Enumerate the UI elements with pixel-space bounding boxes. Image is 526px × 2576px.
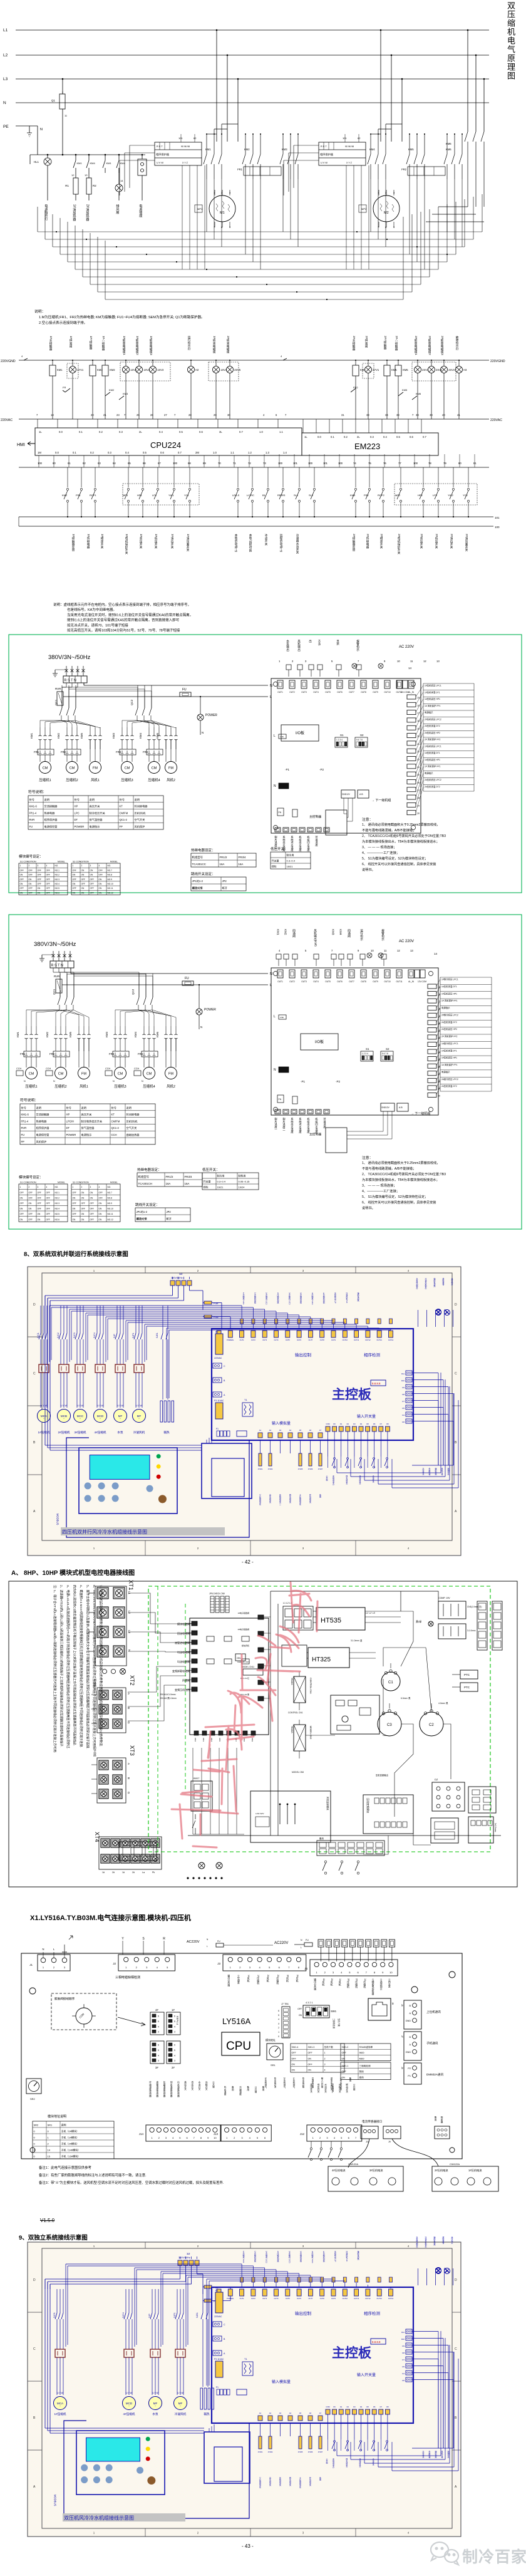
alarm lamps — [352, 663, 357, 668]
svg-text:制冷百家: 制冷百家 — [462, 2548, 526, 2566]
svg-text:2: 2 — [81, 865, 83, 867]
svg-text:4#化霜感温头: 4#化霜感温头 — [299, 1494, 302, 1505]
comm ports — [404, 2000, 421, 2029]
right input connectors — [406, 1371, 412, 1375]
svg-text:水流开关: 水流开关 — [198, 2080, 201, 2090]
svg-text:68: 68 — [188, 462, 191, 465]
svg-text:101: 101 — [293, 462, 298, 465]
output wire OUT1 — [241, 2264, 242, 2287]
remote controller — [326, 1128, 347, 1153]
svg-text:A4: A4 — [289, 1429, 292, 1431]
svg-text:D7: D7 — [380, 1423, 383, 1425]
svg-text:高压开关: 高压开关 — [81, 1113, 92, 1117]
connector J9 — [383, 2126, 401, 2139]
svg-text:1: 1 — [73, 865, 74, 867]
svg-text:2YW1: 2YW1 — [258, 2451, 263, 2453]
svg-text:KM2: KM2 — [62, 494, 68, 497]
contactor for MCB — [59, 1364, 69, 1373]
output wire OUT5 — [287, 1313, 288, 1329]
input contact SL1 — [299, 467, 300, 487]
svg-text:18: 18 — [438, 1008, 440, 1010]
dashed box MP2 group — [394, 484, 477, 505]
phase check lamps — [436, 1309, 441, 1315]
svg-text:KM1: KM1 — [16, 1032, 19, 1037]
svg-text:输出公共端: 输出公共端 — [314, 1978, 317, 1990]
output wire OUT14 — [390, 1329, 391, 1331]
svg-text:6、 线控开关可以外接风查通信控制，具体参见安装: 6、 线控开关可以外接风查通信控制，具体参见安装 — [362, 861, 436, 866]
svg-text:4: 4 — [21, 355, 23, 358]
svg-text:OFF: OFF — [38, 874, 41, 876]
breaker SJF1 — [177, 2289, 178, 2313]
svg-text:NO.12: NO.12 — [108, 1218, 113, 1221]
svg-text:MODEL CN11: MODEL CN11 — [242, 1666, 254, 1668]
svg-text:FR4: FR4 — [143, 750, 148, 754]
svg-text:2#热继电器: 2#热继电器 — [366, 534, 369, 549]
svg-text:5: 5 — [331, 660, 333, 663]
svg-text:KM1-6: KM1-6 — [29, 805, 38, 808]
svg-text:3#压缩机加热: 3#压缩机加热 — [300, 2251, 302, 2262]
svg-text:3: 3 — [146, 1966, 148, 1969]
PCB stub 回油电磁阀 — [192, 1631, 197, 1635]
input contact YW1 — [173, 467, 175, 487]
svg-text:2#相序开关: 2#相序开关 — [379, 534, 383, 549]
svg-text:OFF: OFF — [292, 2057, 297, 2060]
svg-text:FR1: FR1 — [20, 1052, 26, 1056]
svg-text:说明: 说明 — [81, 1106, 86, 1110]
svg-text:CCH: CCH — [46, 1067, 51, 1070]
svg-text:25: 25 — [417, 774, 420, 776]
svg-text:3#压缩机: 3#压缩机 — [75, 1430, 86, 1435]
svg-text:KM5: KM5 — [408, 148, 414, 151]
svg-text:P1: P1 — [408, 2075, 411, 2077]
right input connectors — [406, 2329, 412, 2334]
PCB stub 四通阀 — [192, 1678, 197, 1682]
svg-text:30: 30 — [438, 1094, 440, 1097]
svg-text:OUT10: OUT10 — [343, 2297, 348, 2300]
svg-text:2L: 2L — [139, 430, 142, 434]
svg-text:A6: A6 — [309, 1429, 312, 1431]
svg-text:FR2: FR2 — [364, 494, 369, 497]
connector J4 — [310, 1960, 398, 1976]
svg-text:2#喷液电磁阀: 2#喷液电磁阀 — [226, 336, 230, 355]
svg-text:ON: ON — [99, 883, 102, 885]
svg-text:14: 14 — [408, 667, 412, 670]
relay coil KM3 — [92, 360, 93, 365]
line fuses row — [318, 1940, 324, 1947]
svg-text:EM223: EM223 — [354, 442, 380, 451]
svg-text:CN2: CN2 — [194, 1738, 197, 1742]
svg-text:ON: ON — [38, 1218, 41, 1221]
svg-text:冷凝风机输出: 冷凝风机输出 — [425, 1277, 427, 1290]
svg-text:低压开关: 低压开关 — [191, 2080, 194, 2090]
svg-text:6: 6 — [278, 2010, 279, 2012]
svg-text:不能与强电线路混铺，A/B不能接错；: 不能与强电线路混铺，A/B不能接错； — [362, 1166, 416, 1171]
svg-text:3: 3 — [333, 1971, 334, 1974]
wiring loops right — [440, 1465, 441, 1466]
svg-text:4.0mm² 黑: 4.0mm² 黑 — [438, 1702, 448, 1705]
svg-text:4: 4 — [172, 2136, 174, 2139]
svg-text:系统出水温度: 系统出水温度 — [282, 835, 286, 853]
svg-text:HP1: HP1 — [137, 494, 143, 497]
svg-text:HL1: HL1 — [34, 160, 39, 164]
svg-text:化霜温度传感器: 化霜温度传感器 — [163, 2080, 166, 2097]
svg-text:ON: ON — [99, 1202, 102, 1205]
motor M1 — [209, 195, 235, 222]
output wire OUT6 — [299, 2273, 300, 2287]
svg-text:禁用: 禁用 — [359, 2070, 364, 2073]
svg-text:OFF: OFF — [38, 869, 41, 871]
svg-text:电源保险管: 电源保险管 — [44, 824, 58, 829]
svg-text:公共端: 公共端 — [326, 2458, 328, 2464]
svg-text:NO.2: NO.2 — [55, 874, 60, 876]
svg-text:输出控制: 输出控制 — [295, 1352, 312, 1358]
svg-text:OFF: OFF — [38, 1192, 41, 1194]
svg-text:2# 风机保护 FP2: 2# 风机保护 FP2 — [425, 738, 441, 741]
svg-text:KM3: KM3 — [112, 733, 115, 739]
analog input terminals A1-A7 — [258, 2416, 262, 2421]
fuse FuN — [204, 1315, 212, 1318]
svg-text:4 3 2 1: 4 3 2 1 — [306, 2002, 313, 2004]
svg-text:OUT7: OUT7 — [349, 980, 354, 983]
svg-text:1#压缩机: 1#压缩机 — [54, 2412, 66, 2416]
svg-text:71: 71 — [233, 462, 236, 465]
svg-text:注意：: 注意： — [362, 1155, 373, 1160]
output wire OUT12 — [367, 2285, 368, 2287]
output wire OUT4 — [276, 2270, 277, 2287]
svg-text:3#压机排气: 3#压机排气 — [264, 2077, 267, 2089]
svg-text:14: 14 — [434, 952, 438, 955]
svg-text:机组回水温度: 机组回水温度 — [315, 1117, 319, 1135]
page number 43 — [242, 2543, 254, 2549]
svg-text:11: 11 — [64, 114, 68, 117]
svg-text:29: 29 — [417, 804, 420, 807]
svg-text:HP2: HP2 — [418, 494, 423, 497]
svg-text:7: 7 — [174, 413, 176, 417]
svg-text:激发水温开关: 激发水温开关 — [330, 2077, 333, 2090]
CT box CW122A 3#4# — [328, 2166, 403, 2191]
svg-text:0: 0 — [34, 2142, 36, 2146]
svg-text:64: 64 — [113, 462, 116, 465]
remote controller — [326, 810, 347, 835]
svg-text:9: 9 — [382, 1971, 384, 1974]
svg-text:SR1: SR1 — [271, 2064, 276, 2067]
svg-text:ON: ON — [237, 1656, 240, 1659]
svg-text:OFF: OFF — [29, 874, 33, 876]
svg-text:U V W: U V W — [61, 1405, 66, 1407]
svg-text:ON: ON — [342, 2076, 346, 2079]
svg-text:上位机通讯: 上位机通讯 — [426, 2010, 441, 2014]
terminal FN — [277, 1095, 284, 1103]
svg-text:POWER: POWER — [204, 1008, 216, 1012]
wire stubs plc to row — [38, 455, 39, 467]
svg-text:出水温度传感器: 出水温度传感器 — [177, 2080, 180, 2097]
svg-text:81: 81 — [473, 462, 477, 465]
svg-text:1#化霜感温头: 1#化霜感温头 — [259, 1494, 262, 1505]
svg-text:2: 2 — [53, 1966, 55, 1969]
svg-text:OFF: OFF — [90, 883, 94, 885]
svg-text:FR4: FR4 — [138, 1052, 143, 1056]
svg-text:D8: D8 — [366, 2406, 369, 2408]
svg-text:2L: 2L — [357, 435, 360, 439]
svg-text:D: D — [33, 1303, 36, 1307]
svg-text:注: 1、端子合XT1的L1连接错误器LM的L1端的连接线必: 注: 1、端子合XT1的L1连接错误器LM的L1端的连接线必须穿过互感器方可连接… — [53, 1585, 57, 1753]
svg-text:模块地址: 模块地址 — [266, 2038, 276, 2042]
green border box — [9, 635, 522, 893]
svg-text:EEPV-4: EEPV-4 — [176, 2016, 179, 2025]
svg-text:OFF: OFF — [81, 878, 85, 881]
svg-text:CM: CM — [118, 1072, 123, 1076]
svg-text:3、电源L1/L2/L3先接滤波器再经XT1的端子排连接线必: 3、电源L1/L2/L3先接滤波器再经XT1的端子排连接线必须穿过互感器两匝连接… — [66, 1585, 70, 1749]
svg-text:OFF: OFF — [46, 1208, 50, 1210]
svg-text:2#油位开关: 2#油位开关 — [450, 534, 453, 549]
lamp outputs — [436, 2268, 441, 2274]
svg-text:风机输出: 风机输出 — [297, 640, 301, 652]
svg-text:子机（1#模块）: 子机（1#模块） — [61, 2136, 79, 2139]
PCB stub 均油电磁阀 — [192, 1649, 197, 1654]
svg-text:3: 3 — [90, 1186, 91, 1188]
svg-text:1#油压差开关: 1#油压差开关 — [186, 534, 190, 553]
svg-text:H2: H2 — [195, 368, 199, 371]
svg-text:L: L — [207, 1945, 208, 1948]
svg-text:JP8 CHECK CN9: JP8 CHECK CN9 — [209, 1592, 225, 1595]
svg-text:N: N — [202, 731, 204, 734]
svg-text:GND: GND — [406, 2051, 411, 2054]
board top terminals — [217, 2289, 221, 2296]
svg-text:3: 3 — [174, 2031, 175, 2033]
svg-text:CW122A: CW122A — [348, 2163, 358, 2166]
svg-text:B: B — [127, 1707, 130, 1709]
svg-text:4#压缩机: 4#压缩机 — [123, 2412, 135, 2416]
svg-text:2YW6: 2YW6 — [308, 2451, 313, 2453]
crankcase heater CCH — [16, 1071, 23, 1076]
connector J12 — [307, 2125, 362, 2141]
svg-text:0.5: 0.5 — [396, 435, 400, 439]
svg-text:380V/3N~/50Hz: 380V/3N~/50Hz — [48, 654, 91, 661]
svg-text:SW1.4: SW1.4 — [292, 2046, 299, 2049]
wire XT1 row — [89, 1651, 95, 1652]
svg-text:故障报警: 故障报警 — [442, 2236, 445, 2244]
svg-text:1#制冷低压 LPC1: 1#制冷低压 LPC1 — [441, 1042, 458, 1045]
svg-text:环境感温头: 环境感温头 — [309, 2477, 312, 2487]
svg-text:23: 23 — [438, 1044, 440, 1047]
svg-text:KM1: KM1 — [77, 162, 83, 165]
svg-text:10: 10 — [397, 660, 400, 663]
svg-text:ON: ON — [292, 2069, 296, 2072]
svg-text:3: 3 — [241, 2136, 243, 2139]
svg-text:四通阀: 四通阀 — [292, 929, 296, 938]
svg-text:OFF: OFF — [46, 891, 50, 894]
svg-text:MP1: MP1 — [123, 494, 128, 497]
green dashed inner v — [185, 1604, 186, 1792]
svg-text:1L: 1L — [304, 435, 307, 439]
output wire OUT10 — [344, 2281, 346, 2287]
svg-text:NO.1: NO.1 — [55, 1192, 60, 1194]
svg-text:P1: P1 — [216, 1428, 219, 1430]
svg-text:1#接触器反馈: 1#接触器反馈 — [71, 534, 75, 553]
field switch contact — [360, 1458, 362, 1460]
svg-text:4: 4 — [174, 2054, 175, 2057]
svg-text:2、 TCA301CC/CH机组6号拨码开关必须处于ON位置: 2、 TCA301CC/CH机组6号拨码开关必须处于ON位置;TB3 — [362, 833, 446, 838]
svg-text:1#能量电磁阀3: 1#能量电磁阀3 — [149, 336, 153, 355]
svg-text:辅助电加热: 辅助电加热 — [433, 2236, 436, 2246]
svg-text:D5: D5 — [402, 1407, 405, 1410]
svg-text:YC2: YC2 — [463, 494, 468, 497]
svg-text:NO.6: NO.6 — [55, 891, 60, 894]
ground symbol — [53, 670, 58, 677]
svg-text:RVR: RVR — [29, 818, 35, 821]
board top terminals — [217, 1331, 221, 1337]
svg-text:D: D — [455, 1303, 457, 1307]
svg-text:冰点开关: 冰点开关 — [264, 533, 268, 546]
svg-text:ON: ON — [90, 874, 93, 876]
svg-text:压缩机1: 压缩机1 — [25, 1084, 37, 1089]
svg-text:OUT8: OUT8 — [320, 1339, 324, 1341]
svg-text:ON: ON — [73, 1197, 76, 1199]
svg-text:显示: 显示 — [336, 640, 340, 646]
svg-text:N: N — [207, 1938, 209, 1941]
svg-text:1.0: 1.0 — [259, 430, 263, 434]
svg-text:100: 100 — [278, 462, 283, 465]
heading section 8 — [24, 1249, 128, 1258]
svg-text:电源指示灯: 电源指示灯 — [44, 204, 48, 222]
svg-text:SJC2: SJC2 — [57, 1332, 59, 1338]
svg-text:4: 4 — [99, 865, 100, 867]
svg-text:→ 下一级机组: → 下一级机组 — [411, 1111, 430, 1116]
svg-text:380V/3N~/50Hz: 380V/3N~/50Hz — [34, 941, 76, 948]
svg-text:A: A — [127, 1763, 130, 1765]
svg-text:10: 10 — [389, 1971, 393, 1974]
relay coil KM2 — [105, 360, 106, 365]
svg-text:主控板: 主控板 — [332, 2345, 372, 2360]
svg-text:FR1-4: FR1-4 — [21, 1119, 29, 1123]
svg-text:3: 3 — [64, 1966, 66, 1969]
PCB bottom connector MODEL CN11 — [243, 1669, 263, 1675]
svg-text:28: 28 — [188, 413, 192, 417]
svg-text:I/O板: I/O板 — [296, 730, 304, 735]
svg-text:C1: C1 — [388, 1681, 393, 1685]
svg-text:FR3/4: FR3/4 — [239, 856, 247, 859]
solenoid valve 2YV1 — [368, 360, 369, 366]
svg-text:7: 7 — [288, 1966, 290, 1969]
PLC EM223 — [302, 433, 438, 455]
svg-text:N: N — [42, 1948, 44, 1951]
svg-text:A: A — [127, 1693, 130, 1695]
svg-text:压机变频模块: 压机变频模块 — [366, 1798, 370, 1813]
svg-text:2#压缩机加热: 2#压缩机加热 — [277, 1292, 279, 1304]
svg-text:四通阀: 四通阀 — [182, 1678, 190, 1682]
svg-text:D8: D8 — [386, 1423, 389, 1425]
PCB stub 液管进电磁阀 — [192, 1640, 197, 1644]
svg-text:28: 28 — [438, 1080, 440, 1083]
svg-text:高压开关: 高压开关 — [90, 804, 100, 809]
svg-text:4#: 4# — [155, 2008, 158, 2012]
svg-text:JP1的1-2: JP1的1-2 — [137, 1210, 148, 1214]
relay coil KM5 — [386, 360, 388, 365]
svg-text:8.8.8.8: 8.8.8.8 — [372, 1382, 381, 1385]
svg-text:OFF: OFF — [29, 887, 33, 890]
svg-text:NO.11: NO.11 — [108, 1213, 113, 1215]
svg-text:AL_IN: AL_IN — [408, 980, 415, 983]
svg-text:7: 7 — [193, 2136, 195, 2139]
svg-text:ON: ON — [299, 2014, 302, 2017]
wire N — [83, 683, 85, 685]
svg-text:A2: A2 — [269, 1429, 272, 1431]
svg-text:FM: FM — [81, 1072, 86, 1076]
svg-text:C: C — [224, 1365, 225, 1368]
svg-text:CONTROL CN4: CONTROL CN4 — [309, 1678, 312, 1694]
svg-text:环境温度: 环境温度 — [323, 1118, 327, 1130]
svg-text:备用: 备用 — [319, 1837, 324, 1840]
svg-text:SL1: SL1 — [294, 494, 299, 497]
output wire OUT6 — [299, 1315, 300, 1329]
svg-text:1.2: 1.2 — [248, 451, 252, 454]
svg-text:100: 100 — [413, 462, 418, 465]
svg-text:1.M为压缩机;FR1、FR2为热继电器; KM为接触器;: 1.M为压缩机;FR1、FR2为热继电器; KM为接触器; FU1~FU4为熔断… — [39, 314, 205, 319]
wire XT1 row — [89, 1631, 95, 1633]
svg-text:NO.4: NO.4 — [55, 883, 60, 885]
svg-text:L: L — [274, 1015, 276, 1019]
svg-text:13: 13 — [85, 174, 88, 177]
svg-text:FR1-4: FR1-4 — [29, 811, 37, 814]
svg-text:OUT6: OUT6 — [297, 1339, 301, 1341]
svg-text:CPU: CPU — [226, 2040, 251, 2053]
svg-text:KM2: KM2 — [284, 929, 287, 935]
svg-text:KM2: KM2 — [57, 733, 60, 739]
right edge vertical title — [505, 1, 517, 80]
svg-text:5: 5 — [174, 2020, 175, 2023]
contact KM4 — [118, 155, 120, 160]
svg-text:5、 S1为模块编号设定，S2为模块特性设定；: 5、 S1为模块编号设定，S2为模块特性设定； — [362, 1194, 428, 1199]
svg-text:2: 2 — [48, 2142, 49, 2146]
svg-text:压缩机3: 压缩机3 — [114, 1084, 126, 1089]
contactor for MF — [115, 1364, 125, 1373]
svg-text:3Ø: 3Ø — [179, 1272, 182, 1275]
svg-text:OFF: OFF — [46, 883, 50, 885]
svg-text:ON: ON — [20, 883, 23, 885]
svg-text:Q1: Q1 — [51, 99, 56, 102]
svg-text:1YV1: 1YV1 — [77, 368, 84, 371]
svg-text:19: 19 — [438, 1015, 440, 1017]
svg-text:空气开关: 空气开关 — [126, 1126, 137, 1130]
ground mark — [62, 1936, 73, 1952]
svg-text:4: 4 — [279, 949, 281, 952]
svg-text:系统出水温度: 系统出水温度 — [291, 1117, 294, 1135]
svg-text:MODBUS: MODBUS — [56, 1514, 59, 1525]
svg-text:OUT9: OUT9 — [373, 691, 378, 693]
crankcase heater CCH — [46, 1071, 53, 1076]
svg-text:D3: D3 — [353, 2406, 356, 2408]
arrow to EEPV — [118, 2017, 145, 2026]
svg-text:100: 100 — [495, 526, 500, 529]
svg-text:OFF: OFF — [46, 1218, 50, 1221]
svg-text:B: B — [409, 2036, 411, 2038]
bus wires — [270, 1591, 271, 1836]
svg-text:1# 风机保护 FP1: 1# 风机保护 FP1 — [441, 999, 458, 1002]
svg-text:OUT10: OUT10 — [384, 691, 391, 693]
svg-text:CW122A: CW122A — [450, 2163, 460, 2166]
svg-text:1#压缩机 5JC1: 1#压缩机 5JC1 — [242, 1292, 245, 1305]
svg-text:1#压机高压 HP1: 1#压机高压 HP1 — [441, 1056, 457, 1059]
board top terminals — [277, 970, 283, 978]
svg-text:26: 26 — [150, 413, 153, 417]
svg-text:公共端: 公共端 — [212, 2080, 215, 2088]
svg-text:62: 62 — [358, 137, 361, 140]
svg-text:8: 8 — [221, 226, 223, 229]
svg-text:21: 21 — [438, 1029, 440, 1032]
PCB right stub — [258, 1680, 264, 1685]
field contacts — [324, 1861, 327, 1863]
svg-text:FU: FU — [21, 1133, 25, 1136]
